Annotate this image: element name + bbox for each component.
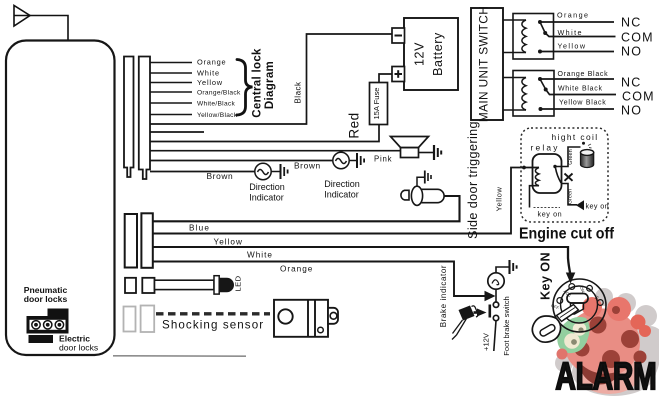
ground for dome light <box>425 171 431 184</box>
wire K3 coil to key-on feed <box>530 186 540 208</box>
wire Black to battery minus <box>150 34 392 124</box>
ladybug bottom faded body <box>578 354 640 394</box>
ladybug foot <box>557 349 568 360</box>
ground for indicator 2 <box>357 153 364 168</box>
key on arrow marker <box>576 200 584 210</box>
cut mark X <box>565 174 573 181</box>
svg-text:LED: LED <box>234 275 243 291</box>
svg-text:Brown: Brown <box>294 161 321 171</box>
svg-text:Pink: Pink <box>374 155 392 164</box>
wire Yellow/Black (central lock) <box>150 114 192 116</box>
shock sensor mounting tab <box>328 308 338 324</box>
relay K3 common contact <box>553 165 556 168</box>
wire switch to relay K2 coil top <box>503 77 526 79</box>
wire White/Black (central lock) <box>150 102 192 104</box>
svg-text:key on: key on <box>538 210 563 219</box>
engine cutoff relay K3 box <box>533 154 562 193</box>
svg-text:Yellow: Yellow <box>558 42 587 51</box>
svg-text:White Black: White Black <box>558 86 603 93</box>
wire brake lamp to ground <box>496 267 509 273</box>
switch position marks <box>557 298 563 304</box>
LED D1 bulb <box>219 278 234 292</box>
svg-text:12V: 12V <box>413 42 427 66</box>
key head <box>532 316 560 342</box>
connector J1 strip B (top) <box>139 57 150 180</box>
svg-text:Orange: Orange <box>557 11 589 20</box>
key blade inserted <box>557 305 579 322</box>
relay K2 COM wire <box>546 90 616 95</box>
curly brace for central lock group <box>237 60 253 116</box>
door lock connector bar top <box>48 309 69 317</box>
svg-text:Direction: Direction <box>324 179 360 189</box>
wire K3 NO to key-on arrow <box>562 184 578 205</box>
ground for indicator 1 <box>281 164 288 179</box>
MAIN UNIT SWITCH box <box>471 8 503 120</box>
relay K1 armature <box>540 22 545 33</box>
relay K2 coil <box>522 78 526 110</box>
ladybug mascot body <box>564 309 640 378</box>
wire switch to relay K2 coil bottom <box>503 109 526 111</box>
fuse F1 15A <box>370 83 388 125</box>
svg-text:Foot brake switch: Foot brake switch <box>502 296 511 356</box>
svg-text:relay: relay <box>531 143 560 153</box>
wire switch to relay K1 coil top <box>503 19 526 21</box>
relay K3 coil <box>535 168 539 186</box>
svg-text:NC: NC <box>621 76 641 90</box>
svg-text:Direction: Direction <box>249 182 285 192</box>
ignition key switch outer ring <box>553 279 606 332</box>
svg-text:Battery: Battery <box>431 32 445 76</box>
ladybug mascot shadow <box>555 288 659 396</box>
wire switch to relay K1 coil bottom <box>503 52 526 54</box>
relay K1 box <box>513 14 554 60</box>
svg-text:Brake indicator: Brake indicator <box>439 265 448 327</box>
foot brake switch lever <box>488 305 491 318</box>
LED D1 base <box>214 276 219 294</box>
svg-text:White: White <box>197 69 220 78</box>
ladybug head lumps <box>582 297 602 317</box>
pedal press arrow <box>477 309 487 317</box>
scan smudge under unit box <box>113 355 246 357</box>
brake pedal icon <box>459 306 475 321</box>
wire switch to +12V <box>494 321 496 351</box>
dome light bulb (festoon) <box>401 186 444 205</box>
svg-text:Red: Red <box>347 112 362 138</box>
ladybug dark mouth shade <box>580 363 620 384</box>
wire Orange (central lock) <box>150 62 192 64</box>
svg-text:Brown: Brown <box>207 171 234 181</box>
svg-text:Yellow/Black: Yellow/Black <box>197 112 238 119</box>
svg-text:+12V: +12V <box>482 332 491 351</box>
wire White (central lock) <box>150 72 192 74</box>
svg-text:Yellow: Yellow <box>495 187 504 212</box>
shock sensor connector pads (faint) <box>124 307 136 332</box>
svg-text:door locks: door locks <box>59 343 98 353</box>
svg-text:Orange Black: Orange Black <box>558 71 609 78</box>
svg-text:Green: Green <box>568 149 574 165</box>
battery plus terminal <box>392 67 405 82</box>
svg-text:White/Black: White/Black <box>197 101 236 108</box>
dashed link to shock sensor <box>156 312 270 315</box>
svg-text:NC: NC <box>621 16 641 30</box>
wire bulb to ground <box>417 177 424 186</box>
wire Pink to siren <box>150 150 401 152</box>
wire Yellow to engine cutoff relay <box>153 232 511 234</box>
svg-text:COM: COM <box>621 31 654 45</box>
junction node on yellow wire <box>522 166 526 170</box>
svg-text:key on: key on <box>586 202 610 211</box>
svg-text:Side door triggering: Side door triggering <box>466 121 480 239</box>
svg-text:Yellow: Yellow <box>197 78 223 87</box>
svg-text:Indicator: Indicator <box>324 190 359 200</box>
shock sensor module <box>274 300 328 337</box>
ground for brake lamp <box>510 260 517 274</box>
svg-text:COM: COM <box>622 90 655 104</box>
connector J2 strip B (bottom) <box>141 213 152 267</box>
relay K2 NO contact and wire <box>539 107 543 111</box>
relay K1 NO contact and wire <box>538 50 542 54</box>
wire K3 COM to ignition coil <box>555 147 581 167</box>
arrow into brake lamp node <box>485 291 496 302</box>
wire Orange to brake circuit <box>153 262 485 297</box>
svg-text:Orange/Black: Orange/Black <box>197 90 241 97</box>
svg-text:MAIN UNIT SWITCH: MAIN UNIT SWITCH <box>477 6 491 122</box>
svg-text:hight coil: hight coil <box>552 132 599 142</box>
brake lamp <box>488 273 504 289</box>
svg-text:Yellow: Yellow <box>214 238 243 247</box>
svg-text:NO: NO <box>621 45 642 59</box>
wire brake lamp to switch <box>495 289 497 302</box>
LED connector pads <box>125 278 136 293</box>
keyhole slot <box>567 294 588 304</box>
siren speaker LS1 <box>391 137 429 158</box>
wire Brown 2 <box>150 160 333 162</box>
door lock connector block <box>27 316 69 334</box>
svg-text:Orange: Orange <box>280 265 313 274</box>
door lock connector bar bottom <box>29 335 54 343</box>
wire Red to fuse <box>150 125 379 142</box>
engine cut off dashed enclosure <box>521 128 608 222</box>
svg-text:White: White <box>558 28 583 37</box>
wire stub <box>150 131 204 133</box>
antenna <box>14 6 68 41</box>
battery minus terminal <box>392 28 405 43</box>
svg-text:Blue: Blue <box>189 224 210 233</box>
relay K2 NC contact and wire <box>538 77 542 81</box>
relay K1 COM wire <box>545 33 615 37</box>
wire Blue to dome light <box>153 196 460 221</box>
connector J1 strip A (top) <box>124 57 134 178</box>
svg-text:ALARM: ALARM <box>556 356 657 397</box>
main alarm unit box <box>6 41 115 356</box>
svg-text:Yellow Black: Yellow Black <box>559 100 606 107</box>
wire White to ignition key <box>153 246 568 248</box>
svg-text:Diagram: Diagram <box>264 61 276 109</box>
wire White arrow into key switch <box>568 246 570 274</box>
wire Yellow (central lock) <box>150 82 192 84</box>
ignition key switch inner face <box>561 286 598 323</box>
foot brake switch contacts <box>493 302 498 307</box>
svg-text:Key ON: Key ON <box>539 252 553 300</box>
relay K1 NC contact and wire <box>538 20 542 24</box>
ladybug spots <box>575 306 647 368</box>
ground for siren <box>434 145 441 160</box>
wire siren to ground <box>419 152 434 154</box>
relay K3 blade <box>556 168 562 183</box>
svg-text:Shocking sensor: Shocking sensor <box>162 319 264 332</box>
relay K2 box <box>513 71 554 117</box>
svg-text:door locks: door locks <box>24 294 68 304</box>
svg-text:Indicator: Indicator <box>249 193 284 203</box>
svg-text:Engine cut off: Engine cut off <box>519 226 615 243</box>
ladybug green face <box>557 317 589 353</box>
svg-text:Orange: Orange <box>197 58 226 67</box>
svg-text:NO: NO <box>621 104 642 118</box>
svg-text:15A Fuse: 15A Fuse <box>372 87 381 119</box>
wire Brown 1 <box>150 171 255 173</box>
wire fuse to battery plus <box>379 74 392 83</box>
battery BT1 12V <box>404 18 458 90</box>
relay K2 armature <box>540 79 546 89</box>
wire Orange/Black (central lock) <box>150 91 192 93</box>
lamp Direction Indicator 2 <box>333 152 357 168</box>
relay K1 coil <box>522 20 526 53</box>
svg-text:Black: Black <box>294 81 303 104</box>
lamp Direction Indicator 1 <box>255 163 280 179</box>
dashed key on lead <box>534 207 561 209</box>
spark dots above coil <box>582 142 585 145</box>
svg-text:Central lock: Central lock <box>252 48 264 118</box>
ladybug eyes <box>573 322 587 336</box>
LED D1 leads <box>155 280 215 289</box>
svg-text:Green: Green <box>568 189 574 205</box>
connector J2 strip A (bottom) <box>125 214 137 268</box>
svg-text:White: White <box>247 251 273 260</box>
